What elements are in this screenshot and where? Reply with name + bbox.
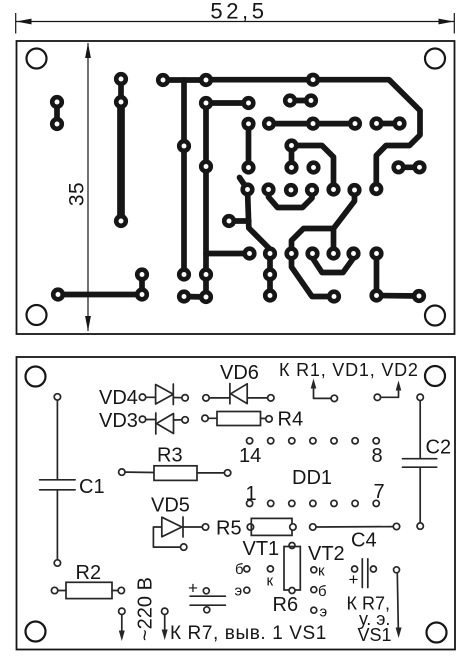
- pad IC bottom: [347, 183, 361, 197]
- pad: [114, 214, 128, 228]
- top board mounting hole top-right: [425, 49, 445, 69]
- bottom board mounting hole top-right: [425, 366, 445, 386]
- wire branch y=253.5: [206, 251, 250, 257]
- pad: [156, 73, 170, 87]
- capacitor C4: [352, 559, 377, 588]
- svg-text:+: +: [349, 570, 359, 589]
- svg-text:~220 В: ~220 В: [135, 577, 157, 641]
- IC DD1 pin row top (14..8): [247, 438, 380, 444]
- svg-text:1: 1: [246, 483, 257, 505]
- pad: [263, 246, 277, 260]
- dimension line 52,5 with arrows: [16, 13, 455, 34]
- label R3: [157, 445, 183, 467]
- bottom board mounting hole bottom-right: [427, 623, 447, 643]
- svg-text:R5: R5: [216, 518, 242, 540]
- pad IC bottom: [240, 182, 254, 196]
- wire long top trace with bend to pin: [206, 80, 420, 189]
- svg-text:R2: R2: [76, 562, 102, 584]
- svg-text:14: 14: [239, 445, 261, 467]
- svg-text:К R7, выв. 1 VS1: К R7, выв. 1 VS1: [170, 623, 327, 644]
- pad: [283, 93, 297, 107]
- pad: [304, 93, 318, 107]
- resistor R6: [284, 543, 300, 594]
- svg-text:э: э: [320, 604, 328, 621]
- plus sign C3: [188, 579, 198, 598]
- pad: [114, 95, 128, 109]
- label C4: [351, 530, 377, 552]
- svg-text:R3: R3: [157, 445, 183, 467]
- wire pair link x=121: [118, 79, 124, 102]
- pad IC bottom: [326, 182, 340, 196]
- svg-text:б: б: [235, 561, 244, 578]
- pad: [199, 96, 213, 110]
- svg-text:э: э: [235, 583, 243, 600]
- capacitor C2: [403, 394, 437, 529]
- label C1: [79, 476, 105, 498]
- pin label k VT2: [318, 563, 325, 580]
- label VD4: [99, 387, 138, 409]
- label K R7,: [347, 594, 391, 614]
- diode VD4: [139, 384, 188, 405]
- wire horizontal y=294.5: [58, 292, 142, 298]
- pin number 1: [246, 483, 257, 505]
- svg-text:VD6: VD6: [220, 362, 259, 384]
- pin label k VT1: [267, 573, 274, 590]
- transistor VT1 pads: [244, 566, 274, 593]
- jumper wire: [310, 523, 400, 530]
- label K R7, vyv. 1 VS1: [170, 623, 327, 644]
- pad IC bottom: [261, 182, 275, 196]
- pad: [177, 267, 191, 281]
- label R5: [216, 518, 242, 540]
- svg-text:+: +: [188, 579, 198, 598]
- svg-text:VD5: VD5: [151, 495, 190, 517]
- diode VD3: [139, 413, 188, 434]
- pad: [326, 246, 340, 260]
- label R2: [76, 562, 102, 584]
- label C2: [426, 437, 452, 459]
- pad: [222, 214, 236, 228]
- wire pair link left: [54, 102, 60, 124]
- pad: [346, 246, 360, 260]
- wire pair link y=167 right: [399, 164, 420, 170]
- pad: [369, 246, 383, 260]
- wire link y=296.5: [184, 294, 206, 300]
- wire IC top row link 2: [377, 121, 400, 127]
- pin label e VT1: [235, 583, 243, 600]
- svg-text:52,5: 52,5: [210, 0, 267, 24]
- wire right column drop: [377, 254, 420, 297]
- svg-text:к: к: [318, 563, 325, 580]
- label ~220 V: [135, 577, 157, 641]
- resistor R4: [202, 412, 272, 426]
- resistor R5: [247, 518, 296, 535]
- pad: [284, 246, 298, 260]
- dimension 35 label: [66, 182, 89, 206]
- wire U dip pins 2-4: [269, 190, 313, 208]
- pad IC bottom: [369, 182, 383, 196]
- label VT2: [308, 543, 345, 565]
- pad: [199, 290, 213, 304]
- IC DD1 pin row bottom (1..7): [247, 500, 380, 506]
- pad: [177, 139, 191, 153]
- svg-text:VD4: VD4: [99, 387, 138, 409]
- svg-text:R4: R4: [278, 409, 304, 431]
- wire U dip bottom row: [313, 254, 354, 273]
- dimension 52,5 label: [210, 0, 267, 24]
- pad: [369, 288, 383, 302]
- diode VD5: [153, 517, 208, 550]
- wire IC top row link 1: [269, 121, 355, 127]
- pad: [263, 267, 277, 281]
- wire horizontal y=80: [163, 77, 206, 83]
- pad: [177, 289, 191, 303]
- wire to R7 u.e. VS1 with down arrow: [394, 567, 402, 638]
- top board outline: [17, 41, 455, 334]
- svg-text:DD1: DD1: [292, 467, 332, 489]
- wire column x=142: [139, 275, 145, 295]
- pad: [51, 287, 65, 301]
- capacitor C1: [40, 394, 76, 567]
- pad IC top 14: [241, 117, 255, 131]
- svg-text:к: к: [267, 573, 274, 590]
- svg-text:8: 8: [372, 445, 383, 467]
- label R4: [278, 409, 304, 431]
- plus sign C4: [349, 570, 359, 589]
- top board mounting hole top-left: [27, 49, 47, 69]
- pad: [392, 116, 406, 130]
- pad IC top: [262, 117, 276, 131]
- wire diagonal to pad: [292, 254, 335, 297]
- pad: [412, 289, 426, 303]
- bottom board outline: [17, 357, 456, 650]
- pad: [199, 267, 213, 281]
- bottom board mounting hole top-left: [26, 367, 46, 387]
- svg-text:C4: C4: [351, 530, 377, 552]
- wire junction drop x=333.5: [331, 229, 337, 254]
- svg-text:VS1: VS1: [358, 625, 392, 645]
- pin label b VT2: [318, 583, 327, 600]
- svg-text:VD3: VD3: [99, 410, 138, 432]
- wire vertical x=206: [203, 103, 209, 297]
- pad: [114, 72, 128, 86]
- svg-text:б: б: [318, 583, 327, 600]
- pad: [135, 267, 149, 281]
- wire stub at pin: [240, 178, 248, 190]
- wire to K R1 with up arrow: [311, 379, 338, 402]
- wire to VD2 with up arrow: [374, 381, 401, 401]
- pad: [242, 246, 256, 260]
- pad IC top: [306, 117, 320, 131]
- wire horizontal y=103: [206, 100, 249, 106]
- svg-text:7: 7: [374, 481, 385, 503]
- pad: [305, 246, 319, 260]
- pin number 14: [239, 445, 261, 467]
- pad: [199, 159, 213, 173]
- wire pad to junction y=221: [229, 218, 249, 224]
- svg-text:VT2: VT2: [308, 543, 345, 565]
- pad: [50, 117, 64, 131]
- pad: [50, 95, 64, 109]
- pad: [327, 289, 341, 303]
- diode VD6: [203, 384, 274, 404]
- wire pair y=101: [290, 98, 311, 104]
- label VT1: [243, 538, 280, 560]
- pad IC bottom: [305, 183, 319, 197]
- pad: [306, 160, 320, 174]
- pin label b VT1: [235, 561, 244, 578]
- pad: [199, 73, 213, 87]
- pad IC bottom: [284, 183, 298, 197]
- wire net R-C: [292, 146, 334, 190]
- wire pair link x=291.5: [289, 146, 295, 168]
- top board mounting hole bottom-right: [425, 306, 445, 326]
- pad: [412, 160, 426, 174]
- wire mains 2 with down arrow: [162, 608, 168, 640]
- wire thick vertical x=121: [117, 102, 125, 221]
- label VD5: [151, 495, 190, 517]
- svg-text:C2: C2: [426, 437, 452, 459]
- label DD1: [292, 467, 332, 489]
- pad: [306, 73, 320, 87]
- pad: [241, 160, 255, 174]
- pin label e VT2: [320, 604, 328, 621]
- resistor R3: [119, 466, 231, 481]
- label u. e.: [359, 609, 390, 629]
- svg-text:35: 35: [66, 182, 89, 206]
- top board mounting hole bottom-left: [27, 305, 47, 325]
- wire pin1 to column: [248, 190, 271, 296]
- resistor R2: [51, 582, 124, 598]
- transistor VT2 pads: [311, 567, 317, 613]
- label R6: [273, 594, 299, 616]
- dimension line 35 with arrows: [85, 43, 91, 331]
- pad IC top: [369, 116, 383, 130]
- wire from pin 5 with junction: [292, 190, 355, 254]
- pad: [241, 96, 255, 110]
- pad IC top: [348, 117, 362, 131]
- label VD6: [220, 362, 259, 384]
- svg-text:К R1, VD1, VD2: К R1, VD1, VD2: [279, 360, 419, 380]
- pad: [284, 138, 298, 152]
- svg-text:R6: R6: [273, 594, 299, 616]
- wire mains 1 with down arrow: [119, 608, 125, 641]
- wire vertical x=184: [181, 80, 187, 275]
- pin number 8: [372, 445, 383, 467]
- wire vertical x=248.5: [246, 124, 252, 168]
- label VS1: [358, 625, 392, 645]
- label K R1, VD1, VD2: [279, 360, 419, 380]
- svg-text:VT1: VT1: [243, 538, 280, 560]
- svg-text:C1: C1: [79, 476, 105, 498]
- pad: [391, 160, 405, 174]
- pad: [263, 288, 277, 302]
- label VD3: [99, 410, 138, 432]
- bottom board mounting hole bottom-left: [26, 622, 46, 642]
- capacitor C3: [190, 588, 225, 613]
- pin number 7: [374, 481, 385, 503]
- pad: [284, 160, 298, 174]
- pad: [135, 287, 149, 301]
